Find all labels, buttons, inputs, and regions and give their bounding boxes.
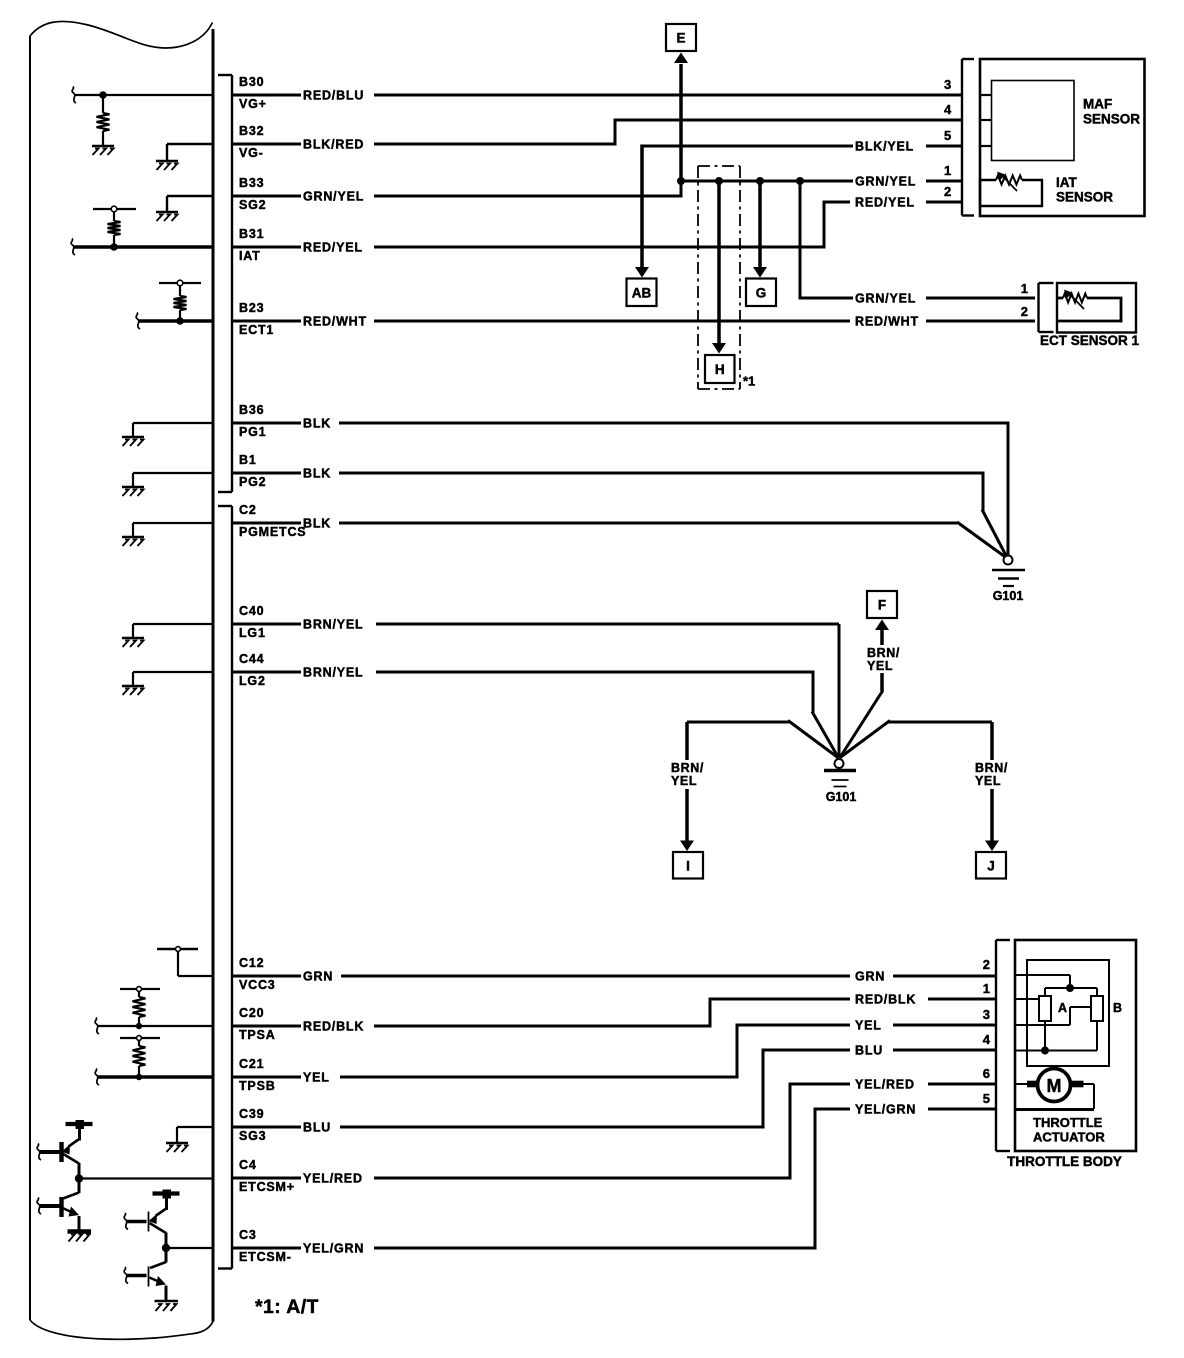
svg-text:BRN/YEL: BRN/YEL — [303, 618, 363, 632]
svg-text:MAF: MAF — [1083, 97, 1112, 112]
svg-text:BLK/YEL: BLK/YEL — [855, 140, 914, 154]
svg-text:ETCSM+: ETCSM+ — [239, 1180, 295, 1194]
svg-text:VCC3: VCC3 — [239, 978, 276, 992]
svg-text:BLK: BLK — [303, 467, 331, 481]
svg-text:BLK/RED: BLK/RED — [303, 138, 364, 152]
svg-text:VG+: VG+ — [239, 97, 267, 111]
svg-text:C2: C2 — [239, 503, 257, 517]
svg-text:RED/YEL: RED/YEL — [303, 241, 363, 255]
svg-text:RED/BLK: RED/BLK — [303, 1020, 364, 1034]
svg-text:G101: G101 — [993, 589, 1024, 603]
svg-text:H: H — [715, 362, 725, 377]
svg-text:BLK: BLK — [303, 517, 331, 531]
svg-text:4: 4 — [983, 1032, 991, 1047]
svg-text:SENSOR: SENSOR — [1056, 190, 1113, 205]
svg-text:SG2: SG2 — [239, 198, 266, 212]
svg-text:GRN: GRN — [303, 970, 333, 984]
svg-text:YEL: YEL — [671, 774, 697, 788]
svg-text:IAT: IAT — [1056, 175, 1077, 190]
svg-text:A: A — [1058, 1001, 1067, 1015]
svg-text:BRN/: BRN/ — [975, 761, 1008, 775]
svg-text:6: 6 — [983, 1066, 990, 1081]
svg-text:B36: B36 — [239, 403, 264, 417]
svg-text:LG1: LG1 — [239, 626, 266, 640]
svg-text:BLK: BLK — [303, 417, 331, 431]
svg-text:B33: B33 — [239, 176, 264, 190]
svg-text:ACTUATOR: ACTUATOR — [1033, 1130, 1105, 1145]
svg-text:B31: B31 — [239, 227, 264, 241]
svg-text:SG3: SG3 — [239, 1129, 266, 1143]
svg-text:C21: C21 — [239, 1057, 264, 1071]
svg-text:3: 3 — [944, 77, 951, 92]
svg-text:C44: C44 — [239, 652, 264, 666]
svg-text:5: 5 — [983, 1091, 990, 1106]
svg-text:TPSA: TPSA — [239, 1028, 276, 1042]
svg-text:YEL: YEL — [855, 1019, 882, 1033]
svg-text:ECT1: ECT1 — [239, 323, 274, 337]
svg-text:C40: C40 — [239, 604, 264, 618]
svg-text:THROTTLE BODY: THROTTLE BODY — [1007, 1154, 1122, 1169]
svg-text:*1: A/T: *1: A/T — [255, 1296, 319, 1318]
svg-text:YEL/GRN: YEL/GRN — [855, 1103, 916, 1117]
svg-text:J: J — [987, 858, 995, 873]
svg-text:G101: G101 — [826, 790, 857, 804]
svg-text:IAT: IAT — [239, 249, 261, 263]
svg-text:C12: C12 — [239, 956, 264, 970]
svg-text:YEL/RED: YEL/RED — [303, 1172, 363, 1186]
svg-text:SENSOR: SENSOR — [1083, 112, 1140, 127]
svg-text:YEL: YEL — [975, 774, 1001, 788]
svg-text:B23: B23 — [239, 301, 264, 315]
svg-text:YEL/GRN: YEL/GRN — [303, 1242, 364, 1256]
svg-text:ECT SENSOR 1: ECT SENSOR 1 — [1040, 333, 1140, 348]
svg-text:AB: AB — [632, 285, 652, 300]
svg-text:1: 1 — [1021, 281, 1028, 296]
svg-text:2: 2 — [1021, 304, 1028, 319]
svg-text:THROTTLE: THROTTLE — [1033, 1115, 1103, 1130]
svg-text:M: M — [1047, 1076, 1062, 1096]
svg-text:B30: B30 — [239, 75, 264, 89]
svg-text:3: 3 — [983, 1007, 990, 1022]
svg-text:G: G — [756, 285, 767, 300]
svg-text:2: 2 — [944, 184, 951, 199]
svg-text:BRN/YEL: BRN/YEL — [303, 666, 363, 680]
svg-text:4: 4 — [944, 102, 952, 117]
svg-text:1: 1 — [983, 981, 990, 996]
svg-text:TPSB: TPSB — [239, 1079, 276, 1093]
svg-text:RED/WHT: RED/WHT — [855, 315, 919, 329]
svg-text:*1: *1 — [743, 374, 755, 389]
svg-text:PG2: PG2 — [239, 475, 266, 489]
svg-text:GRN/YEL: GRN/YEL — [855, 292, 916, 306]
svg-text:2: 2 — [983, 957, 990, 972]
svg-text:LG2: LG2 — [239, 674, 266, 688]
svg-text:BLU: BLU — [855, 1044, 883, 1058]
svg-text:GRN: GRN — [855, 970, 885, 984]
svg-text:PG1: PG1 — [239, 425, 266, 439]
svg-text:B32: B32 — [239, 124, 264, 138]
svg-text:YEL: YEL — [867, 659, 893, 673]
svg-text:PGMETCS: PGMETCS — [239, 525, 306, 539]
svg-text:C20: C20 — [239, 1006, 264, 1020]
svg-text:YEL: YEL — [303, 1071, 330, 1085]
svg-text:GRN/YEL: GRN/YEL — [855, 175, 916, 189]
svg-text:B1: B1 — [239, 453, 257, 467]
svg-text:I: I — [686, 858, 690, 873]
svg-text:GRN/YEL: GRN/YEL — [303, 190, 364, 204]
svg-text:ETCSM-: ETCSM- — [239, 1250, 292, 1264]
svg-text:RED/YEL: RED/YEL — [855, 196, 915, 210]
svg-text:E: E — [676, 31, 685, 46]
svg-text:RED/BLU: RED/BLU — [303, 89, 364, 103]
svg-text:5: 5 — [944, 128, 951, 143]
svg-text:YEL/RED: YEL/RED — [855, 1078, 915, 1092]
svg-text:RED/BLK: RED/BLK — [855, 993, 916, 1007]
svg-text:BRN/: BRN/ — [867, 646, 900, 660]
svg-text:F: F — [878, 598, 886, 613]
svg-text:C39: C39 — [239, 1107, 264, 1121]
svg-text:BRN/: BRN/ — [671, 761, 704, 775]
svg-text:C4: C4 — [239, 1158, 257, 1172]
svg-text:B: B — [1113, 1001, 1122, 1015]
svg-text:C3: C3 — [239, 1228, 257, 1242]
svg-text:RED/WHT: RED/WHT — [303, 315, 367, 329]
svg-text:VG-: VG- — [239, 146, 264, 160]
svg-text:1: 1 — [944, 163, 951, 178]
svg-text:BLU: BLU — [303, 1121, 331, 1135]
